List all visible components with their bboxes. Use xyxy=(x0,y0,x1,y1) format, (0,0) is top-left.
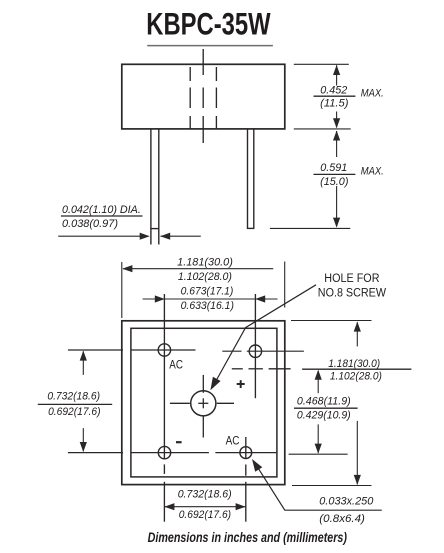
svg-text:0.692(17.6): 0.692(17.6) xyxy=(179,509,231,521)
svg-text:Dimensions in inches and (mill: Dimensions in inches and (millimeters) xyxy=(148,530,348,545)
svg-text:AC: AC xyxy=(226,433,240,447)
svg-text:0.033x.250: 0.033x.250 xyxy=(319,496,373,508)
svg-text:0.692(17.6): 0.692(17.6) xyxy=(48,406,100,418)
svg-text:0.633(16.1): 0.633(16.1) xyxy=(181,300,234,312)
svg-text:1.181(30.0): 1.181(30.0) xyxy=(177,256,233,268)
svg-text:(11.5): (11.5) xyxy=(320,98,348,110)
svg-text:HOLE FOR: HOLE FOR xyxy=(324,273,379,285)
svg-text:0.673(17.1): 0.673(17.1) xyxy=(181,285,234,297)
svg-text:1.102(28.0): 1.102(28.0) xyxy=(330,371,382,383)
svg-text:(15.0): (15.0) xyxy=(320,176,348,188)
svg-text:0.042(1.10) DIA.: 0.042(1.10) DIA. xyxy=(62,204,141,216)
svg-text:0.732(18.6): 0.732(18.6) xyxy=(178,488,232,500)
svg-text:0.591: 0.591 xyxy=(320,162,347,174)
svg-text:MAX.: MAX. xyxy=(361,166,384,178)
svg-text:0.732(18.6): 0.732(18.6) xyxy=(47,390,100,402)
svg-text:KBPC-35W: KBPC-35W xyxy=(146,6,271,41)
svg-text:0.038(0.97): 0.038(0.97) xyxy=(62,218,118,230)
svg-text:1.102(28.0): 1.102(28.0) xyxy=(178,271,232,283)
svg-text:0.429(10.9): 0.429(10.9) xyxy=(297,410,351,422)
svg-text:AC: AC xyxy=(169,357,183,371)
svg-text:0.468(11.9): 0.468(11.9) xyxy=(297,396,351,408)
svg-text:NO.8 SCREW: NO.8 SCREW xyxy=(318,287,386,299)
svg-text:1.181(30.0): 1.181(30.0) xyxy=(328,358,380,370)
svg-text:0.452: 0.452 xyxy=(320,85,347,97)
svg-text:MAX.: MAX. xyxy=(361,87,384,99)
svg-text:(0.8x6.4): (0.8x6.4) xyxy=(319,513,365,525)
